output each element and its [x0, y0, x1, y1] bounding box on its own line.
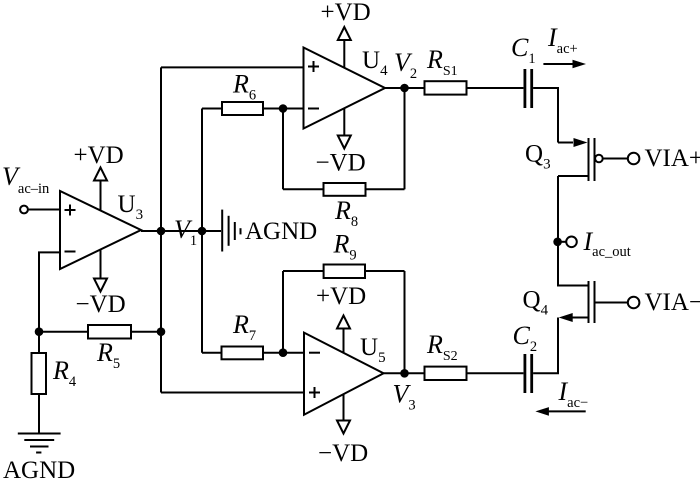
input terminal V_ac-in	[20, 206, 28, 214]
svg-text:+VD: +VD	[74, 142, 124, 169]
op-amp U4	[304, 48, 386, 129]
wire to R8	[283, 188, 324, 190]
wire RS1 to C1	[467, 87, 524, 89]
op-amp U3	[60, 191, 141, 269]
svg-text:VIA+: VIA+	[645, 145, 700, 172]
wire C1 to Q3 drain	[533, 88, 558, 143]
terminal VIA+	[603, 153, 640, 165]
current arrow I_ac+	[543, 60, 586, 69]
current arrow I_ac-	[535, 407, 585, 416]
wire top run to U4 +	[161, 66, 304, 68]
node V3	[400, 369, 409, 378]
transistor Q3	[558, 138, 603, 181]
svg-text:+VD: +VD	[316, 283, 366, 310]
wire R8 to V2 branch	[366, 188, 405, 190]
node U5 inverting	[279, 348, 288, 357]
wire down to U5 - node	[282, 271, 284, 353]
transistor Q4	[559, 281, 595, 323]
wire bottom run to U5 +	[161, 392, 304, 394]
svg-text:−VD: −VD	[76, 291, 126, 318]
resistor RS1	[425, 81, 467, 94]
svg-text:VIA−: VIA−	[645, 289, 700, 316]
capacitor C1	[525, 69, 532, 108]
resistor R6	[222, 102, 263, 115]
wire U5 output	[384, 372, 425, 374]
wire R6 to U4 -	[263, 108, 304, 110]
wire Q3 source down to node	[557, 176, 559, 242]
wire R7 to U5 -	[263, 352, 304, 354]
wire input to U3 +	[28, 209, 60, 211]
wire node to Q4 drain	[558, 242, 589, 286]
wire R9 right	[365, 270, 405, 272]
-VD power pin U4	[338, 108, 351, 148]
ground AGND	[18, 434, 61, 453]
-VD power pin U3	[94, 250, 107, 292]
capacitor C2	[525, 354, 532, 393]
svg-text:+VD: +VD	[321, 0, 371, 26]
resistor R7	[222, 347, 264, 360]
+VD power pin U5	[337, 316, 350, 353]
wire U4 feedback down	[282, 109, 284, 190]
wire C2 to RS2	[467, 372, 524, 374]
wire R9 left	[283, 270, 324, 272]
svg-text:−VD: −VD	[318, 440, 368, 467]
wire to R6	[202, 108, 222, 110]
op-amp U5	[304, 333, 384, 415]
wire V3 up to R9	[404, 271, 406, 373]
node R5 right	[157, 327, 166, 336]
resistor R4	[32, 353, 47, 394]
node U4 inverting	[279, 104, 288, 113]
resistor R9	[324, 265, 365, 279]
terminal VIA-	[595, 297, 640, 309]
-VD power pin U5	[337, 394, 350, 433]
wire vertical branch x202	[201, 109, 203, 353]
wire vertical main bus x161	[160, 67, 162, 392]
wire U3 inverting feedback	[39, 252, 60, 332]
svg-text:AGND: AGND	[245, 218, 317, 245]
node I_ac_out	[553, 237, 577, 248]
svg-text:−VD: −VD	[316, 150, 366, 177]
wire U4 output	[385, 87, 425, 89]
wire U3 output to AGND stub	[141, 230, 221, 232]
wire Q4 source down to C2	[533, 318, 558, 374]
svg-text:AGND: AGND	[3, 457, 75, 484]
wire junction to R4	[38, 332, 40, 353]
node V2	[400, 84, 409, 93]
signal ground AGND mid	[222, 210, 240, 252]
wire feedback up to V2	[404, 88, 406, 189]
resistor R8	[324, 183, 366, 196]
wire R4 to ground	[38, 394, 40, 434]
wire junction to R5	[39, 331, 88, 333]
node V1	[157, 227, 166, 236]
node R4/R5 junction	[35, 327, 44, 336]
+VD power pin U4	[338, 27, 351, 68]
+VD power pin U3	[94, 168, 107, 211]
wire to R7	[202, 352, 222, 354]
resistor R5	[88, 325, 131, 339]
resistor RS2	[425, 367, 467, 380]
node V1/R6R7 branch	[198, 227, 207, 236]
wire R5 to node	[131, 331, 161, 333]
